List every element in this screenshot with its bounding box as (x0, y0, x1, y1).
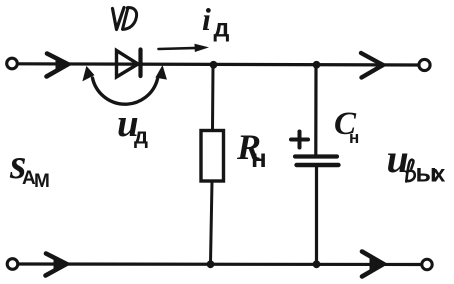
capacitor Cn top plate (295, 154, 337, 158)
arrow bottom-right signal direction (362, 252, 384, 277)
node top-left junction (210, 61, 217, 68)
svg-text:М: М (34, 171, 50, 192)
arrow top-right signal direction (361, 53, 383, 78)
label s_AM (9, 142, 50, 192)
svg-text:u: u (387, 136, 409, 181)
wire resistor top lead (211, 66, 215, 130)
label u_d (117, 102, 148, 149)
svg-text:i: i (202, 1, 211, 37)
arrow bottom-left signal direction (46, 254, 67, 276)
svg-text:н: н (349, 128, 359, 147)
capacitor Cn bottom plate (297, 163, 339, 167)
node bottom-left junction (207, 261, 214, 268)
label i_d (202, 1, 230, 43)
current arrow i_d (159, 44, 208, 51)
svg-text:х: х (433, 161, 446, 187)
polarity plus sign (291, 132, 308, 148)
terminal input bottom (7, 259, 18, 270)
node top-right junction (313, 61, 320, 68)
wire resistor bottom lead (211, 182, 213, 264)
wire capacitor top lead (314, 66, 317, 154)
label R_n (236, 127, 267, 173)
node bottom-right junction (313, 261, 320, 268)
wire capacitor bottom lead (315, 168, 318, 263)
wire bottom rail (19, 262, 422, 266)
terminal output top (419, 59, 430, 70)
diode VD (117, 50, 141, 78)
label u_out (387, 136, 446, 188)
svg-text:д: д (134, 124, 148, 149)
terminal output bottom (422, 259, 432, 269)
arrow top-left signal direction (47, 54, 69, 77)
svg-text:н: н (251, 143, 267, 173)
resistor Rn (201, 131, 224, 182)
svg-text:д: д (214, 15, 230, 43)
wire top rail (19, 64, 420, 65)
label VD (113, 8, 137, 30)
terminal input top (7, 58, 18, 69)
voltage arc u_d across diode (84, 67, 166, 104)
label C_n (334, 106, 359, 147)
